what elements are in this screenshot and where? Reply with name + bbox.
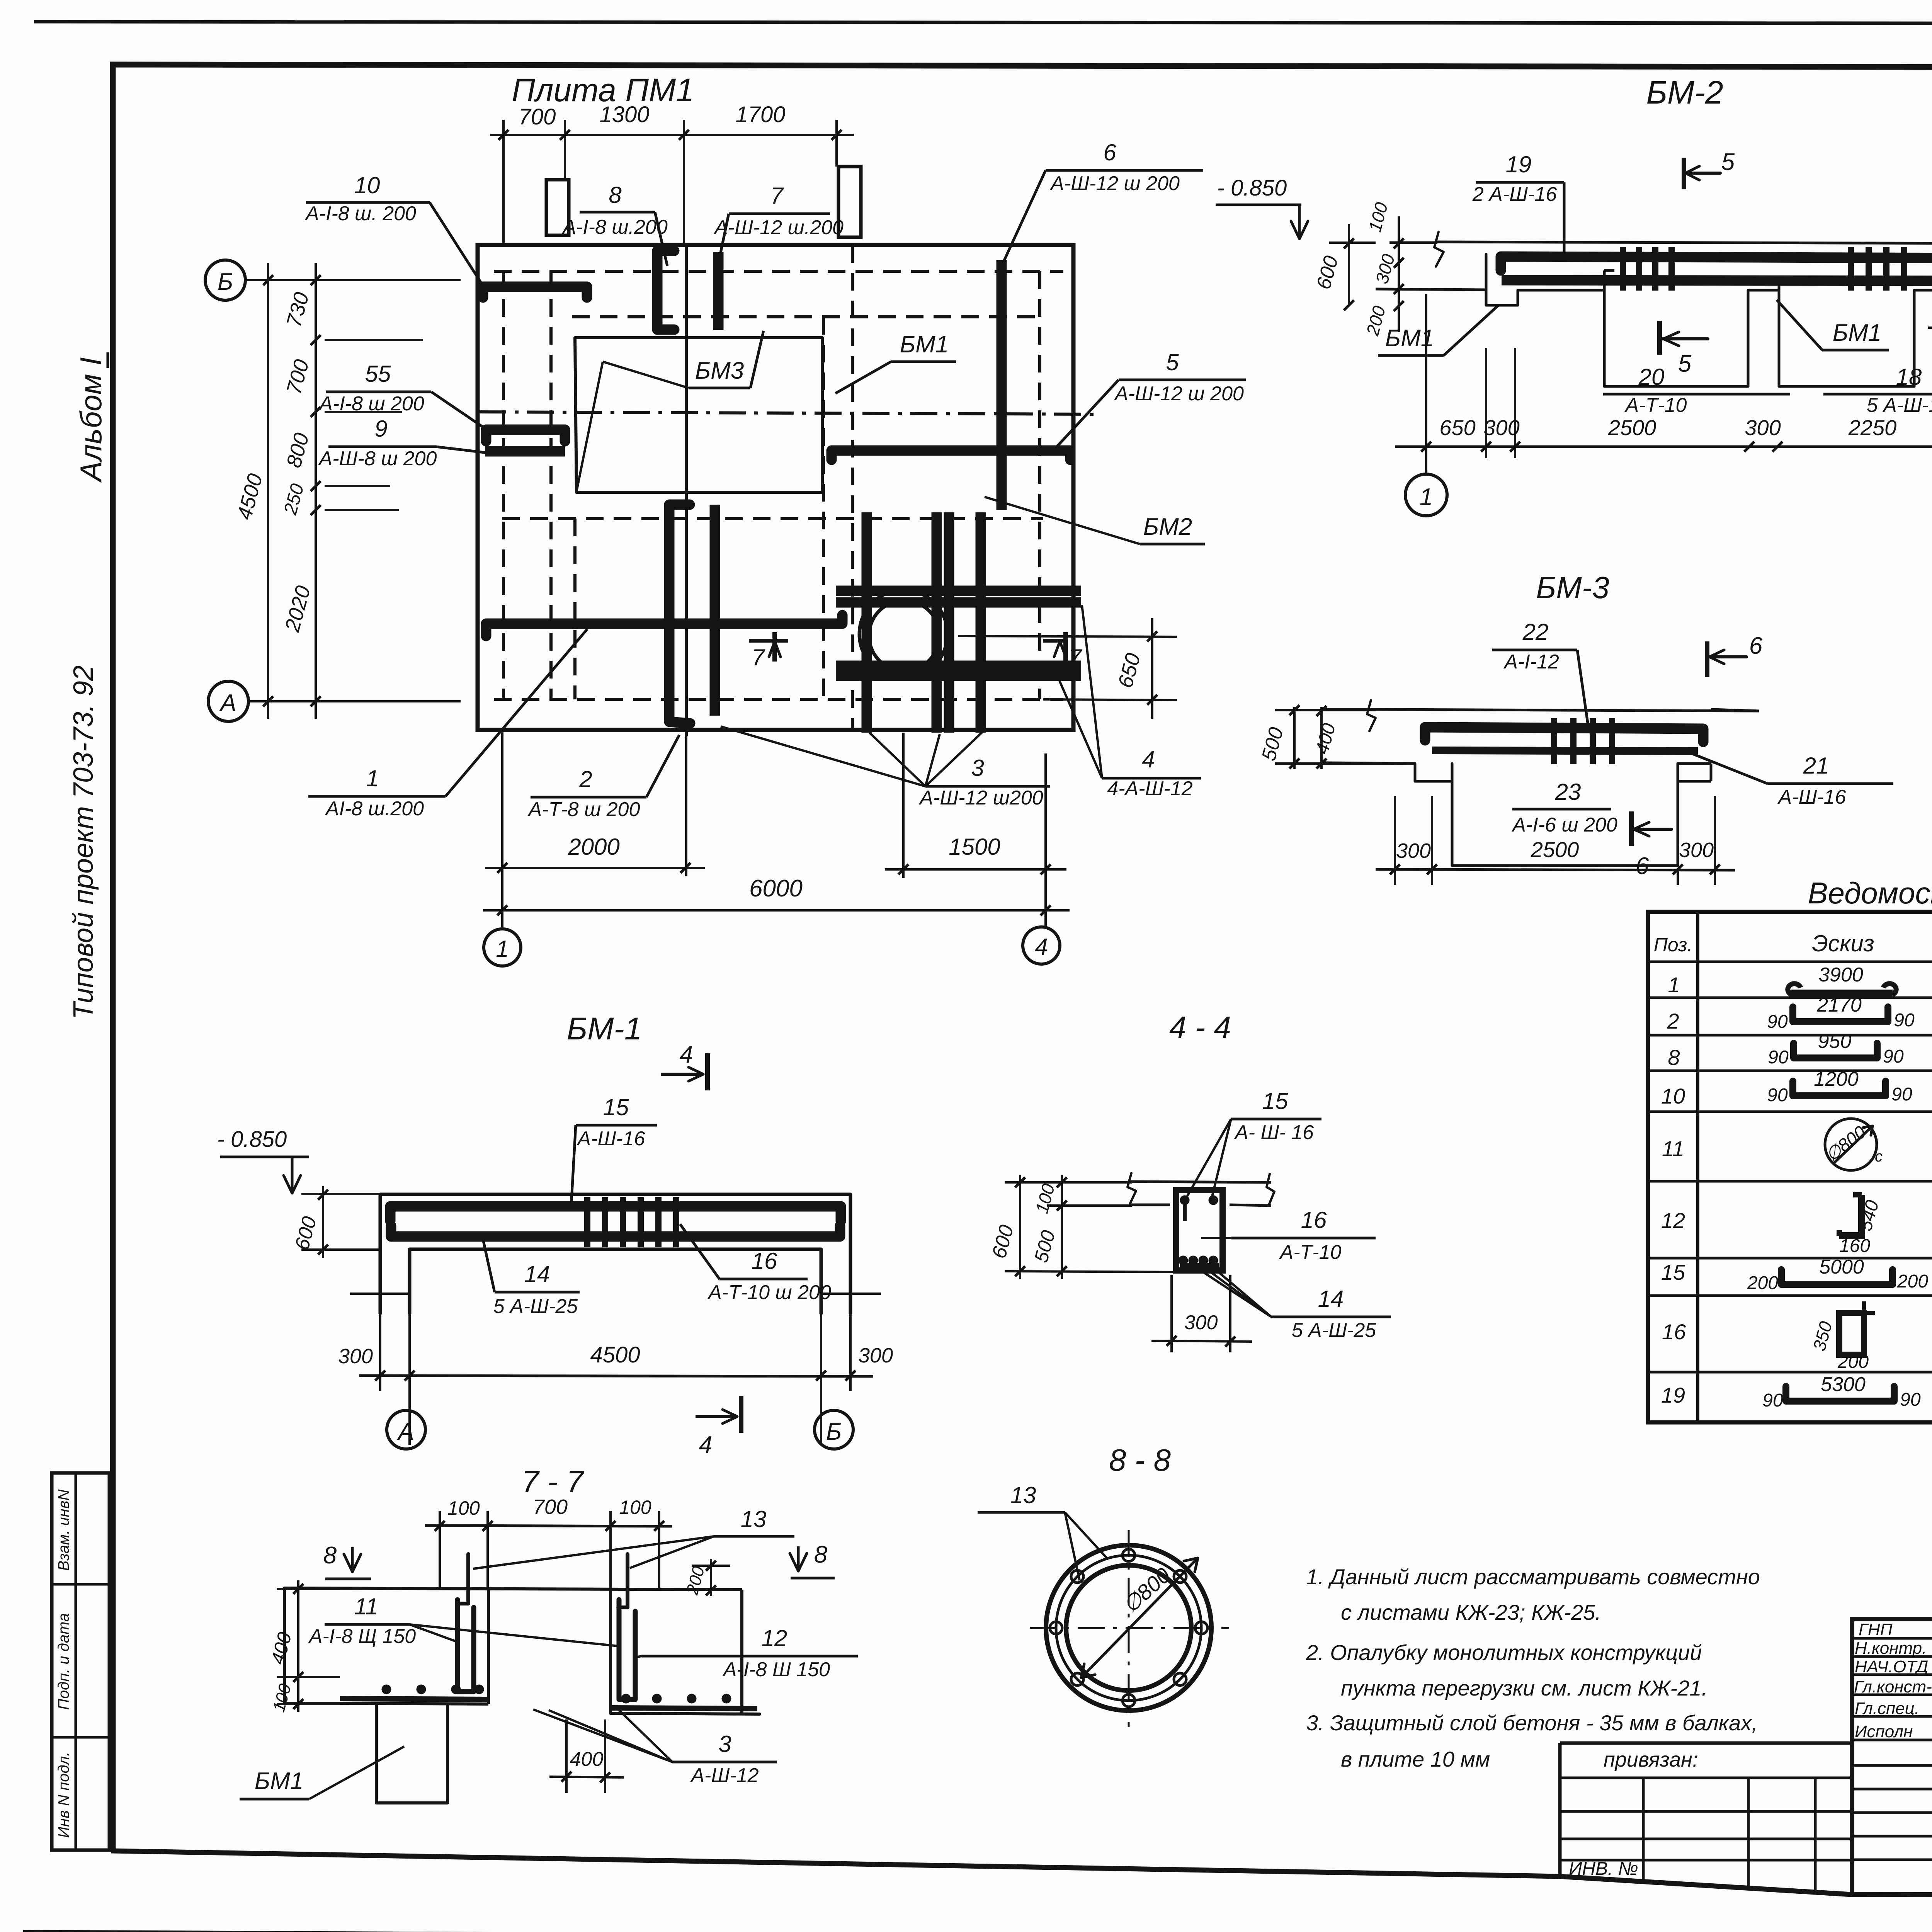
svg-text:90: 90 [1767,1012,1788,1032]
svg-text:А-Ш-8 ш 200: А-Ш-8 ш 200 [318,447,437,470]
svg-text:10: 10 [1661,1084,1685,1108]
BM-3 top rebar [1425,727,1703,742]
paper top edge line [34,22,1932,24]
label 6 leader [1046,169,1203,172]
svg-text:950: 950 [1818,1030,1852,1053]
svg-text:3. Защитный слой бетоня - 3: 3. Защитный слой бетоня - 35 мм в балках… [1306,1711,1758,1735]
svg-text:- 0.850: - 0.850 [217,1127,287,1152]
svg-text:12: 12 [1661,1208,1685,1233]
plan dashed beam line bottom [494,698,1063,701]
svg-text:А-Т-10: А-Т-10 [1279,1241,1342,1264]
svg-text:1500: 1500 [949,834,1000,860]
svg-text:А-Т-10 ш 200: А-Т-10 ш 200 [707,1281,831,1304]
svg-text:10: 10 [354,172,380,198]
column stub right above plan [838,167,861,237]
BM-2 right end marks [1928,327,1932,329]
svg-text:3900: 3900 [1818,964,1863,986]
svg-text:БМ-1: БМ-1 [567,1011,642,1046]
BM-3 slab top line [1370,709,1759,711]
7-7 right hook bar [618,1554,628,1607]
svg-text:6: 6 [1636,853,1649,879]
svg-text:8: 8 [323,1542,337,1569]
label 55 leader [326,391,431,393]
svg-text:А-Ш-12: А-Ш-12 [690,1764,759,1787]
BM-3 slab bottom right [1678,762,1711,765]
BM-3 section mark 6 top [1705,641,1709,677]
svg-text:2. Опалубку монолитных конс: 2. Опалубку монолитных конструкций [1306,1640,1702,1665]
svg-text:5: 5 [1721,149,1735,175]
axis line B [245,279,461,281]
BM-2 slab left continuation lines [1389,241,1437,244]
axis bubble 4 plan [1023,927,1060,964]
label 9 leader [328,446,436,448]
svg-text:12: 12 [762,1625,787,1651]
8-8 inner circle [1066,1565,1191,1690]
section 4-4 rebar dots bottom [1179,1257,1187,1264]
svg-text:300: 300 [338,1345,373,1368]
svg-text:18: 18 [1896,364,1922,390]
svg-text:7: 7 [1068,645,1082,670]
svg-text:БМ1: БМ1 [1833,320,1881,346]
extension for 1500 [902,733,905,878]
BM-3 label 21 leader [1767,782,1893,785]
svg-text:650: 650 [1439,415,1475,440]
plan dashed beam edge left inner [549,271,553,699]
svg-text:А-Ш-12 ш 200: А-Ш-12 ш 200 [1049,172,1180,195]
svg-text:15: 15 [1262,1088,1288,1114]
svg-text:19: 19 [1661,1383,1685,1407]
7-7 left slab block [284,1588,339,1703]
svg-text:4: 4 [699,1432,712,1458]
svg-text:Б: Б [826,1418,842,1445]
BM-2 left vertical dims [1348,224,1350,306]
svg-text:1: 1 [366,765,379,791]
7-7 left beam stub [376,1704,447,1803]
plan dashed beam edge left outer [502,271,505,699]
label 1 leader [308,795,446,798]
BM-2 label 19 leader [1476,181,1564,184]
svg-text:А-I-6 ш 200: А-I-6 ш 200 [1511,814,1617,836]
BM-1 axis bubble B [815,1410,853,1449]
svg-text:А-Т-10: А-Т-10 [1624,394,1687,417]
8-8 crosshair vertical [1128,1530,1130,1727]
svg-text:2000: 2000 [568,834,619,860]
svg-text:А-Ш-12 ш200: А-Ш-12 ш200 [918,787,1043,809]
BM-2 beam 2 outline [1779,290,1914,386]
label 10 leader [306,201,430,204]
svg-text:Взам. инвN: Взам. инвN [55,1490,72,1571]
rebar 2 tall bracket [669,505,690,723]
axis line A [248,700,461,702]
svg-text:БМ-3: БМ-3 [1536,570,1609,605]
7-7 dim 200 right [710,1559,712,1596]
plan dim 6000 line [483,909,1070,912]
svg-text:4: 4 [1142,747,1155,772]
svg-text:90: 90 [1768,1047,1789,1068]
hole opening circle inner [869,600,939,671]
svg-text:300: 300 [858,1344,893,1367]
svg-text:200: 200 [1837,1352,1869,1372]
svg-text:ИНВ. №: ИНВ. № [1569,1859,1638,1879]
plan opening BM3 outline [575,338,822,492]
axis bubble 1 plan [484,929,521,966]
svg-text:16: 16 [1662,1320,1686,1344]
svg-text:3: 3 [718,1731,731,1757]
svg-text:БМ1: БМ1 [900,331,949,358]
title block outer [1852,1619,1932,1896]
dim 650 right of plan [958,636,1177,637]
svg-text:8 - 8: 8 - 8 [1109,1443,1171,1477]
svg-text:11: 11 [1662,1136,1684,1161]
plan slab outline [478,245,1073,730]
BM-2 section mark 5 top [1682,158,1686,189]
7-7 dim 400 bottom [549,1777,624,1777]
BM-3 bottom dim chain [1376,869,1735,870]
svg-text:9: 9 [374,416,387,442]
rebar 5 bar [832,451,1070,460]
svg-text:Типовой проект 703-73. 92: Типовой проект 703-73. 92 [68,665,99,1019]
BM-1 dim 600 [322,1186,324,1258]
plan dashed beam line top [494,270,1063,273]
BM-1 bottom dim line [359,1376,873,1376]
BM-3 stirrup group [1551,718,1557,764]
svg-text:14: 14 [524,1261,550,1287]
BM-3 slab lines left [1325,708,1370,711]
svg-text:БМ2: БМ2 [1143,514,1192,540]
rebar 2 vertical bar [710,505,720,716]
svg-text:15: 15 [603,1094,629,1120]
svg-text:2500: 2500 [1531,837,1579,862]
8-8 rebar dots [1122,1549,1135,1561]
BM-2 section mark 5 bottom [1657,321,1662,355]
svg-text:1: 1 [496,936,509,962]
axis bubble A [208,681,248,721]
svg-text:13: 13 [741,1506,767,1532]
column stub left above plan [546,180,569,235]
7-7 left hook bar [458,1554,468,1604]
BM-2 left notch [1486,254,1518,305]
section 4-4 hanger bar [1183,1200,1187,1221]
svg-text:8: 8 [1668,1045,1680,1070]
svg-text:300: 300 [1184,1311,1218,1334]
svg-text:1700: 1700 [735,102,785,127]
BM-2 top rebar [1501,257,1932,273]
BM-3 slab break left [1367,700,1376,731]
svg-text:90: 90 [1883,1046,1904,1067]
svg-text:А-Ш-16: А-Ш-16 [576,1128,645,1150]
BM-1 top rebar [390,1206,841,1221]
svg-text:А- Ш- 16: А- Ш- 16 [1234,1121,1314,1144]
BM-2 stirrup group left [1620,247,1626,291]
BM-3 label 22 leader [1492,649,1577,651]
svg-text:Подп. и дата: Подп. и дата [55,1613,72,1710]
7-7 right slab block [611,1590,760,1714]
svg-text:300: 300 [1679,838,1714,862]
privyazan box [1560,1743,1852,1892]
svg-text:5: 5 [1678,350,1692,377]
svg-text:5: 5 [1166,349,1179,375]
svg-text:Альбом I: Альбом I [74,357,108,483]
plan vertical centerline [685,245,688,736]
svg-text:2 А-Ш-16: 2 А-Ш-16 [1472,183,1557,206]
rebar 6 vertical bar [997,260,1007,510]
svg-text:А-Ш-12 ш.200: А-Ш-12 ш.200 [713,216,844,239]
svg-text:7: 7 [770,183,784,209]
BM-1 outline [380,1194,850,1313]
BM-2 bottom rebar [1502,280,1932,281]
svg-text:100: 100 [619,1497,651,1518]
BM-1 section mark 4 top [661,1073,703,1076]
svg-text:22: 22 [1522,619,1549,645]
BM-3 extension lines [1394,796,1396,885]
svg-text:1. Данный лист рассматриват: 1. Данный лист рассматривать совместно [1306,1565,1760,1589]
label 5 leader [1119,379,1246,381]
paper bottom edge line [23,1931,1932,1932]
plan left dim chain [315,263,317,719]
section 4-4 slab top line [1130,1182,1271,1182]
BM-2 slab break mark left [1434,232,1444,267]
BM-2 axis bubble 1 [1405,474,1447,516]
section 4-4 left dims [1019,1175,1021,1279]
svg-text:90: 90 [1762,1390,1783,1411]
sheet frame bottom line [111,1851,1932,1896]
svg-text:4500: 4500 [590,1342,640,1367]
svg-text:А-I-8 ш.200: А-I-8 ш.200 [561,216,668,238]
svg-text:2: 2 [579,766,592,792]
label 2 leader [531,796,646,799]
BM-2 slab top line [1437,242,1932,243]
label 8 leader [580,211,655,214]
svg-text:А-I-8 Ш 150: А-I-8 Ш 150 [722,1658,830,1681]
section 4-4 beam rect [1176,1190,1223,1270]
svg-text:А: А [219,690,236,716]
svg-text:4: 4 [680,1041,693,1068]
plan horizontal centerline [479,412,1094,414]
svg-text:7: 7 [752,645,765,670]
plan dashed beam line second [572,315,1043,318]
rebar mesh horizontal bars at hole [836,586,1081,596]
svg-text:1300: 1300 [599,102,649,127]
svg-text:23: 23 [1555,779,1581,805]
8-8 crosshair horizontal [1030,1627,1229,1629]
svg-text:2170: 2170 [1816,994,1862,1016]
svg-text:5 А-Ш-25: 5 А-Ш-25 [1292,1319,1376,1342]
svg-text:160: 160 [1839,1236,1870,1256]
svg-text:6000: 6000 [749,875,803,902]
svg-text:15: 15 [1661,1260,1685,1284]
rebar 9 bar [485,446,565,457]
svg-text:90: 90 [1891,1084,1912,1105]
BM-2 stirrup group right [1848,247,1854,291]
svg-text:А-Ш-16: А-Ш-16 [1777,786,1846,808]
BM-2 axis line 1 [1425,294,1427,473]
svg-text:БМ1: БМ1 [255,1768,303,1794]
7-7 bottom bars left [340,1699,487,1699]
svg-text:Гл.спец.: Гл.спец. [1855,1699,1919,1718]
plan dim 2000 line [485,867,705,869]
plan top dimension line [490,134,854,136]
rebar 7 vertical bar [713,252,724,330]
svg-text:в плите 10 мм: в плите 10 мм [1341,1747,1490,1771]
7-7 left hairpin rebar [457,1600,474,1692]
svg-text:1200: 1200 [1814,1068,1859,1090]
7-7 top dim chain [425,1526,672,1526]
rebar 55 bar [486,430,565,441]
axis bubble B [205,260,245,300]
svg-text:7 - 7: 7 - 7 [522,1464,585,1499]
BM-3 left dims [1293,707,1296,769]
8-8 middle circle [1056,1555,1201,1701]
svg-text:2500: 2500 [1608,415,1656,440]
axis extension line 1 [501,730,503,927]
svg-text:ГНП: ГНП [1859,1620,1893,1639]
svg-text:с листами КЖ-23; КЖ-25.: с листами КЖ-23; КЖ-25. [1341,1600,1601,1624]
7-7 left dims [297,1580,299,1712]
section 4-4 bottom bar [1180,1263,1219,1269]
7-7 bottom bars right [612,1708,757,1709]
BM-1 support left ticks [350,1293,410,1295]
svg-text:А-Ш-12 ш 200: А-Ш-12 ш 200 [1114,383,1244,405]
svg-text:6: 6 [1749,633,1763,659]
rebar 10 top-left bar [483,287,587,298]
extension lines left dims [325,339,423,341]
BM-2 slab bottom segments [1518,289,1604,292]
left margin label Album I [74,352,108,483]
svg-text:НАЧ.ОТД: НАЧ.ОТД [1855,1657,1928,1676]
svg-text:16: 16 [1301,1207,1327,1233]
plan dashed beam edge mid-right [822,317,825,699]
svg-text:Эскиз: Эскиз [1812,930,1874,956]
svg-text:19: 19 [1506,151,1532,177]
svg-text:А-I-8 ш. 200: А-I-8 ш. 200 [304,202,416,225]
section 4-4 break marks [1128,1173,1136,1204]
BM-3 section mark 6 bottom [1629,811,1634,846]
svg-text:90: 90 [1900,1389,1921,1410]
svg-text:4-А-Ш-12: 4-А-Ш-12 [1107,777,1192,800]
svg-text:БМ3: БМ3 [695,357,744,384]
BM-2 axis line mid [1485,348,1487,458]
details table left [1648,912,1932,1422]
7-7 rebar dots left block [383,1685,390,1693]
8-8 diameter arrow [1082,1559,1197,1677]
7-7 slab top line [284,1588,742,1590]
rebar mesh vertical bars at hole [862,512,872,733]
svg-text:Гл.конст-: Гл.конст- [1854,1677,1932,1696]
svg-text:13: 13 [1010,1482,1036,1508]
BM-1 bottom rebar [391,1226,840,1236]
inventory grid [1560,1810,1852,1813]
BM-3 bottom rebar [1432,750,1698,751]
label 3 leaders [925,785,1050,788]
svg-text:2: 2 [1667,1009,1679,1033]
plan dim 1500 line [885,868,1066,871]
svg-text:А-I-8 ш 200: А-I-8 ш 200 [318,393,424,415]
svg-text:700: 700 [519,104,556,129]
8-8 outer circle [1046,1545,1211,1711]
svg-text:14: 14 [1318,1286,1344,1312]
BM-1 section mark 4 bottom [696,1415,737,1418]
section 4-4 dim 300 [1170,1275,1173,1352]
svg-text:100: 100 [447,1497,480,1519]
plan dashed left stub [573,519,577,699]
svg-text:700: 700 [533,1495,568,1519]
svg-text:200: 200 [1897,1271,1928,1292]
rebar 1 long bar [486,615,842,636]
svg-text:300: 300 [1745,415,1781,440]
svg-text:- 0.850: - 0.850 [1217,175,1287,201]
svg-text:90: 90 [1894,1010,1915,1031]
svg-text:20: 20 [1638,364,1665,390]
svg-text:пункта перегрузки см. лист: пункта перегрузки см. лист КЖ-21. [1341,1676,1708,1700]
svg-text:А-I-12: А-I-12 [1503,651,1559,673]
svg-text:привязан:: привязан: [1604,1748,1698,1771]
svg-text:1: 1 [1668,973,1680,997]
svg-text:200: 200 [1747,1273,1778,1293]
svg-text:5 А-Ш-25: 5 А-Ш-25 [493,1295,578,1318]
label 7 leader [729,213,830,215]
BM-2 beam 1 outline [1604,290,1748,386]
plan dashed beam edge right outer [851,245,854,730]
svg-text:с: с [1875,1148,1883,1165]
svg-text:400: 400 [570,1748,604,1770]
BM-2 bottom dim chain [1395,446,1932,448]
BM-1 stirrup group [584,1197,590,1247]
axis extension line 4 [1044,753,1047,927]
svg-text:5000: 5000 [1819,1256,1864,1278]
svg-text:АI-8 ш.200: АI-8 ш.200 [325,798,424,820]
svg-text:А-Т-8 ш 200: А-Т-8 ш 200 [527,798,640,821]
section mark 7 left [749,639,788,643]
svg-text:6: 6 [1103,139,1116,165]
svg-text:Исполн: Исполн [1855,1722,1913,1741]
plan dashed beam line lower [502,517,1043,520]
label 4 leaders [1102,777,1201,780]
section 4-4 rebar dots top [1181,1196,1189,1204]
svg-text:Б: Б [218,269,233,295]
svg-text:55: 55 [365,361,391,387]
svg-text:21: 21 [1803,753,1829,779]
axis extension centerline [685,736,687,876]
svg-text:Поз.: Поз. [1654,934,1693,956]
svg-text:8: 8 [814,1541,828,1568]
svg-text:Ведомость: Ведомость [1808,876,1932,910]
svg-text:16: 16 [752,1248,777,1274]
svg-text:Инв N подл.: Инв N подл. [55,1752,72,1838]
left margin stamp table [52,1473,109,1850]
7-7 rebar dots right block [622,1695,630,1702]
section 4-4 slab lower lines [1130,1204,1170,1206]
hole opening circle outer [859,590,947,678]
title block signature rows [1852,1637,1932,1640]
BM-1 axis bubble A [387,1410,425,1449]
plan dashed beam edge right inner [1038,271,1041,699]
svg-text:3: 3 [971,755,984,781]
svg-text:А-I-8 Щ 150: А-I-8 Щ 150 [308,1625,416,1648]
section mark 7 right [1063,632,1068,662]
7-7 right hairpin rebar [619,1600,635,1699]
svg-text:2250: 2250 [1848,415,1897,440]
svg-text:1: 1 [1420,484,1433,510]
svg-text:90: 90 [1767,1085,1788,1105]
BM-1 extension lines [379,1313,381,1391]
svg-text:300: 300 [1396,839,1431,862]
svg-text:5 А-Ш-16: 5 А-Ш-16 [1867,394,1932,417]
svg-text:Н.контр.: Н.контр. [1855,1639,1927,1658]
svg-text:4: 4 [1035,934,1048,960]
rebar stirrup 8 bracket [657,251,674,330]
svg-text:4 - 4: 4 - 4 [1169,1010,1231,1044]
svg-text:А: А [396,1418,414,1445]
